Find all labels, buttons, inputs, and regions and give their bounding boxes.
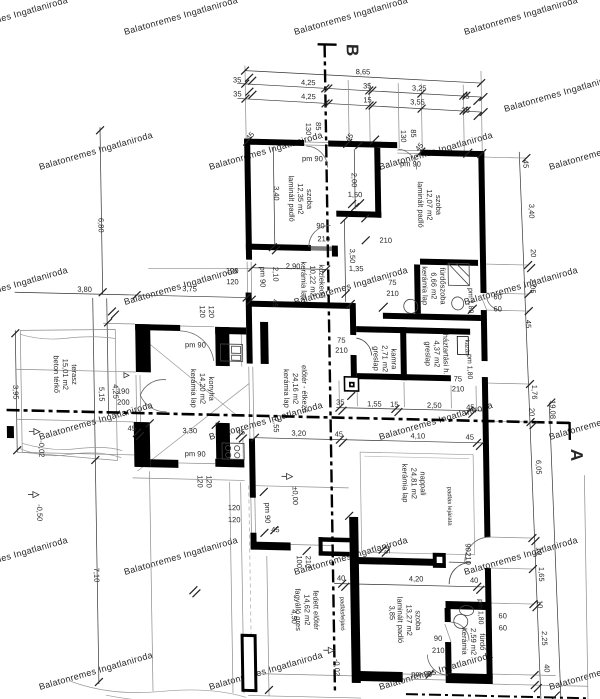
svg-text:3,55: 3,55	[410, 97, 425, 106]
svg-text:10,22 m2: 10,22 m2	[308, 265, 317, 296]
svg-text:35: 35	[336, 398, 344, 407]
svg-text:kerámia lap: kerámia lap	[299, 261, 309, 300]
svg-text:13,27 m2: 13,27 m2	[405, 604, 414, 635]
svg-text:10: 10	[535, 600, 544, 609]
svg-text:210: 210	[379, 236, 392, 245]
svg-text:190: 190	[117, 387, 130, 396]
svg-text:45: 45	[271, 525, 279, 534]
svg-text:3,80: 3,80	[77, 285, 92, 294]
svg-text:pm 90: pm 90	[411, 669, 432, 678]
svg-text:3,20: 3,20	[291, 429, 306, 438]
svg-text:35: 35	[233, 89, 241, 98]
svg-text:3,85: 3,85	[388, 605, 397, 620]
svg-text:75: 75	[388, 278, 396, 287]
svg-text:35: 35	[461, 106, 469, 115]
svg-text:-0,50: -0,50	[35, 504, 44, 521]
svg-text:45: 45	[271, 299, 280, 308]
svg-text:45: 45	[461, 92, 469, 101]
svg-text:padlásfeljáró: padlásfeljáró	[338, 597, 345, 632]
svg-text:100: 100	[295, 555, 304, 568]
svg-text:3,25: 3,25	[412, 83, 427, 92]
svg-text:laminált padló: laminált padló	[287, 175, 297, 221]
svg-text:laminált padló: laminált padló	[416, 181, 426, 227]
svg-text:24,16 m2: 24,16 m2	[291, 373, 300, 404]
svg-text:120: 120	[207, 305, 216, 318]
svg-text:8,65: 8,65	[356, 67, 371, 76]
svg-text:±0,00: ±0,00	[291, 486, 300, 505]
svg-text:szoba: szoba	[414, 610, 423, 631]
svg-text:6,66 m2: 6,66 m2	[429, 272, 438, 299]
svg-text:120: 120	[226, 266, 239, 275]
svg-text:45: 45	[521, 160, 530, 169]
svg-text:7,10: 7,10	[92, 568, 101, 583]
svg-text:kerámia lap: kerámia lap	[400, 464, 410, 503]
svg-text:pm 90: pm 90	[258, 266, 267, 287]
svg-text:210: 210	[335, 346, 348, 355]
svg-text:2,00: 2,00	[350, 173, 359, 188]
svg-text:pm 1,80: pm 1,80	[466, 288, 473, 314]
svg-text:fürdőszoba: fürdőszoba	[438, 267, 448, 305]
svg-text:3,75: 3,75	[182, 284, 197, 293]
svg-text:85: 85	[409, 129, 418, 138]
svg-text:beton térkő: beton térkő	[52, 355, 62, 393]
svg-text:25: 25	[383, 545, 392, 554]
svg-text:7,55: 7,55	[272, 418, 281, 433]
svg-text:40: 40	[542, 664, 551, 673]
svg-text:kamra: kamra	[389, 348, 398, 370]
svg-text:120: 120	[226, 277, 239, 286]
svg-text:210: 210	[304, 556, 313, 569]
svg-text:kerámia: kerámia	[460, 628, 469, 656]
svg-text:210: 210	[432, 646, 445, 655]
svg-text:210: 210	[386, 289, 399, 298]
svg-text:2,25: 2,25	[540, 631, 549, 646]
svg-text:4,50: 4,50	[290, 609, 299, 624]
svg-text:4,25: 4,25	[301, 92, 316, 101]
svg-text:fürdő: fürdő	[478, 633, 487, 650]
svg-text:3,40: 3,40	[527, 204, 536, 219]
svg-text:pm 90: pm 90	[400, 159, 421, 168]
svg-text:háztartási h.: háztartási h.	[441, 334, 451, 375]
svg-text:greslap: greslap	[423, 341, 432, 366]
svg-text:45: 45	[466, 433, 474, 442]
svg-text:kerámia lap: kerámia lap	[189, 369, 199, 408]
svg-text:35: 35	[363, 81, 371, 90]
svg-text:15: 15	[363, 95, 371, 104]
svg-text:2,59 m2: 2,59 m2	[469, 628, 478, 655]
svg-text:terasz: terasz	[70, 364, 79, 385]
svg-text:3,40: 3,40	[272, 186, 281, 201]
svg-text:20: 20	[527, 408, 536, 417]
svg-text:nappali: nappali	[418, 471, 427, 496]
svg-text:pm 90: pm 90	[185, 340, 206, 349]
svg-text:60: 60	[499, 623, 507, 632]
svg-text:2,71 m2: 2,71 m2	[380, 345, 389, 372]
svg-text:1,76: 1,76	[530, 385, 539, 400]
svg-text:12,35 m2: 12,35 m2	[296, 183, 305, 214]
svg-text:40: 40	[337, 574, 345, 583]
svg-text:210: 210	[464, 552, 473, 565]
svg-text:konyha: konyha	[207, 377, 216, 402]
svg-text:pm 1,80: pm 1,80	[465, 354, 472, 380]
svg-text:B: B	[343, 44, 362, 57]
svg-text:3,95: 3,95	[11, 385, 20, 400]
svg-text:14,20 m2: 14,20 m2	[198, 373, 207, 404]
svg-text:120: 120	[196, 475, 205, 488]
svg-text:1,55: 1,55	[367, 399, 382, 408]
svg-text:75: 75	[337, 336, 345, 345]
svg-text:2,50: 2,50	[427, 401, 442, 410]
svg-text:4,25: 4,25	[301, 78, 316, 87]
svg-text:130: 130	[399, 130, 408, 143]
svg-text:120: 120	[228, 515, 241, 524]
svg-text:120: 120	[228, 503, 241, 512]
svg-text:60: 60	[498, 611, 506, 620]
svg-text:szoba: szoba	[305, 189, 314, 210]
svg-text:60: 60	[493, 292, 501, 301]
svg-text:2,90: 2,90	[286, 261, 301, 270]
svg-text:24,81 m2: 24,81 m2	[409, 468, 418, 499]
svg-text:90: 90	[316, 221, 324, 230]
svg-text:35: 35	[233, 75, 241, 84]
svg-text:előtér - étkező: előtér - étkező	[300, 365, 310, 413]
svg-text:120: 120	[205, 475, 214, 488]
svg-text:1,35: 1,35	[349, 264, 364, 273]
svg-text:15,01 m2: 15,01 m2	[61, 359, 70, 390]
svg-text:pm 90: pm 90	[185, 449, 206, 458]
svg-text:45: 45	[466, 403, 474, 412]
svg-text:padlás lejárata: padlás lejárata	[446, 487, 453, 527]
svg-text:3,50: 3,50	[348, 249, 357, 264]
svg-text:20: 20	[529, 249, 538, 258]
svg-text:pm 90: pm 90	[302, 154, 323, 163]
svg-text:6,80: 6,80	[96, 218, 105, 233]
svg-text:45: 45	[524, 320, 533, 329]
svg-text:-0,02: -0,02	[332, 659, 341, 676]
svg-text:90: 90	[464, 543, 473, 552]
svg-text:4,37 m2: 4,37 m2	[432, 340, 441, 367]
svg-text:90: 90	[434, 634, 442, 643]
svg-text:120: 120	[198, 305, 207, 318]
svg-text:-0,02: -0,02	[37, 440, 46, 457]
svg-text:greslap: greslap	[371, 346, 380, 371]
svg-text:kerámia lap: kerámia lap	[282, 369, 292, 408]
svg-text:210: 210	[317, 234, 330, 243]
svg-text:19,08: 19,08	[548, 400, 557, 419]
svg-text:10: 10	[535, 547, 544, 556]
svg-text:1,50: 1,50	[348, 190, 363, 199]
svg-text:2,05: 2,05	[528, 279, 537, 294]
svg-text:45: 45	[128, 424, 136, 433]
svg-text:1,65: 1,65	[537, 567, 546, 582]
svg-text:60: 60	[494, 304, 502, 313]
svg-text:45: 45	[237, 427, 245, 436]
svg-text:kerámia lap: kerámia lap	[420, 266, 430, 305]
svg-text:4,10: 4,10	[410, 431, 425, 440]
svg-text:6,05: 6,05	[534, 460, 543, 475]
svg-text:12,07 m2: 12,07 m2	[425, 189, 434, 220]
svg-text:40: 40	[470, 576, 478, 585]
svg-text:130: 130	[304, 123, 313, 136]
svg-text:200: 200	[117, 398, 130, 407]
svg-text:pm 90: pm 90	[263, 502, 272, 523]
svg-text:3,30: 3,30	[182, 426, 197, 435]
svg-text:210: 210	[452, 384, 465, 393]
svg-text:5,15: 5,15	[97, 387, 106, 402]
svg-text:75: 75	[454, 374, 462, 383]
svg-text:85: 85	[314, 122, 323, 131]
svg-text:A: A	[567, 449, 586, 462]
svg-text:2,10: 2,10	[271, 267, 280, 282]
svg-text:14,62 m2: 14,62 m2	[302, 594, 311, 625]
svg-text:szoba: szoba	[434, 195, 443, 216]
svg-text:pm 1,80: pm 1,80	[476, 599, 483, 625]
svg-text:15: 15	[390, 400, 398, 409]
svg-text:4,20: 4,20	[409, 574, 424, 583]
svg-text:45: 45	[335, 430, 343, 439]
